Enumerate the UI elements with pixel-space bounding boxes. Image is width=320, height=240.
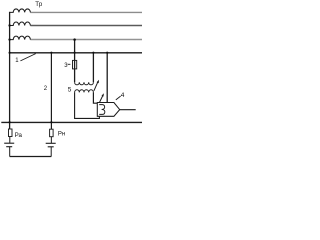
svg-text:Рн: Рн — [58, 131, 65, 137]
svg-text:Тр: Тр — [35, 1, 42, 8]
svg-text:5: 5 — [68, 87, 72, 94]
svg-text:Ра: Ра — [15, 132, 23, 139]
svg-text:1: 1 — [15, 58, 19, 64]
svg-text:2: 2 — [44, 86, 48, 92]
svg-text:4: 4 — [121, 92, 125, 99]
